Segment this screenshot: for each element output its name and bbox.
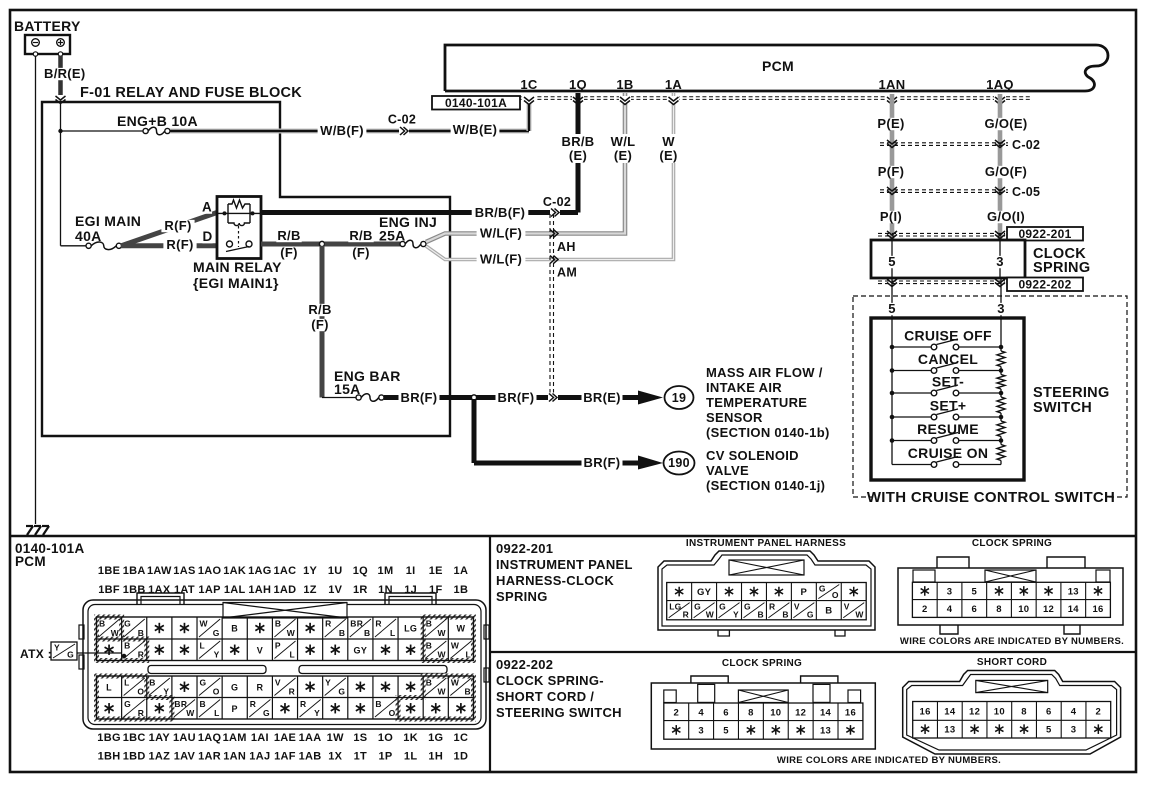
svg-text:8: 8 <box>1021 706 1027 717</box>
svg-text:L: L <box>290 650 296 660</box>
svg-text:0140-101A: 0140-101A <box>445 96 507 110</box>
svg-text:BR: BR <box>350 619 363 629</box>
svg-text:V: V <box>844 602 850 612</box>
svg-text:10: 10 <box>1018 604 1029 615</box>
svg-text:CLOCK SPRING: CLOCK SPRING <box>722 658 802 669</box>
svg-text:B: B <box>426 619 432 629</box>
svg-text:HARNESS-CLOCK: HARNESS-CLOCK <box>496 573 614 588</box>
svg-text:L: L <box>106 682 112 692</box>
svg-text:W: W <box>287 628 296 638</box>
svg-text:R: R <box>289 687 295 697</box>
svg-text:MASS AIR FLOW /: MASS AIR FLOW / <box>706 365 823 380</box>
svg-text:1C: 1C <box>520 77 538 92</box>
svg-text:G: G <box>231 682 238 692</box>
svg-text:O: O <box>137 687 144 697</box>
svg-text:B: B <box>231 624 238 634</box>
svg-text:G: G <box>124 699 131 709</box>
svg-text:W/L: W/L <box>611 134 636 149</box>
svg-text:R: R <box>375 619 381 629</box>
svg-text:1AU: 1AU <box>173 732 196 744</box>
svg-text:WIRE COLORS ARE INDICATED BY N: WIRE COLORS ARE INDICATED BY NUMBERS. <box>777 755 1001 766</box>
svg-text:W: W <box>186 708 195 718</box>
svg-text:B: B <box>124 641 130 651</box>
svg-text:8: 8 <box>996 604 1002 615</box>
svg-text:1I: 1I <box>406 565 416 577</box>
svg-text:10: 10 <box>994 706 1005 717</box>
svg-text:B: B <box>99 619 105 629</box>
svg-text:1X: 1X <box>328 751 342 763</box>
svg-text:1AH: 1AH <box>248 584 271 596</box>
svg-text:1AZ: 1AZ <box>148 751 170 763</box>
svg-text:V: V <box>794 602 800 612</box>
svg-text:R: R <box>138 708 144 718</box>
svg-text:1AN: 1AN <box>223 751 246 763</box>
svg-text:L: L <box>124 678 130 688</box>
svg-text:1AV: 1AV <box>174 751 196 763</box>
svg-text:STEERING: STEERING <box>1033 385 1110 401</box>
svg-text:5: 5 <box>971 586 977 597</box>
svg-text:R: R <box>138 650 144 660</box>
svg-text:G/O(F): G/O(F) <box>985 164 1027 179</box>
svg-text:O: O <box>389 708 396 718</box>
svg-text:R(F): R(F) <box>164 218 191 233</box>
svg-text:1V: 1V <box>328 584 342 596</box>
svg-text:W: W <box>855 609 864 619</box>
svg-text:LG: LG <box>669 602 681 612</box>
svg-text:1B: 1B <box>616 77 633 92</box>
svg-text:C-02: C-02 <box>1012 138 1040 152</box>
svg-text:B: B <box>138 628 144 638</box>
svg-text:5: 5 <box>1046 725 1052 736</box>
svg-text:W/B(E): W/B(E) <box>453 122 497 137</box>
svg-text:2: 2 <box>1096 706 1102 717</box>
svg-text:1AJ: 1AJ <box>249 751 270 763</box>
svg-text:1AE: 1AE <box>274 732 296 744</box>
svg-text:B: B <box>757 609 763 619</box>
svg-text:1AI: 1AI <box>251 732 269 744</box>
svg-text:4: 4 <box>1071 706 1077 717</box>
svg-text:G: G <box>819 584 826 594</box>
svg-text:15A: 15A <box>334 381 361 397</box>
svg-text:5: 5 <box>723 725 729 736</box>
svg-text:(F): (F) <box>352 245 370 260</box>
svg-text:1AO: 1AO <box>198 565 222 577</box>
svg-text:3: 3 <box>996 254 1004 269</box>
svg-text:B: B <box>375 699 381 709</box>
svg-text:R: R <box>250 699 256 709</box>
svg-text:1S: 1S <box>353 732 367 744</box>
svg-text:CLOCK SPRING-: CLOCK SPRING- <box>496 673 604 688</box>
svg-text:W: W <box>706 609 715 619</box>
svg-text:16: 16 <box>845 707 856 718</box>
svg-text:LG: LG <box>404 624 417 634</box>
svg-text:W: W <box>437 687 446 697</box>
svg-text:{EGI MAIN1}: {EGI MAIN1} <box>193 275 279 291</box>
svg-text:1A: 1A <box>665 77 683 92</box>
svg-text:B: B <box>339 628 345 638</box>
svg-text:G: G <box>694 602 701 612</box>
svg-text:(E): (E) <box>569 148 587 163</box>
svg-text:WITH CRUISE CONTROL SWITCH: WITH CRUISE CONTROL SWITCH <box>867 489 1115 506</box>
svg-text:INSTRUMENT PANEL HARNESS: INSTRUMENT PANEL HARNESS <box>686 538 846 549</box>
svg-text:1AQ: 1AQ <box>986 77 1014 92</box>
svg-text:1D: 1D <box>454 751 469 763</box>
svg-text:G/O(E): G/O(E) <box>985 116 1028 131</box>
svg-text:1BH: 1BH <box>98 751 121 763</box>
svg-text:VALVE: VALVE <box>706 463 749 478</box>
svg-text:190: 190 <box>668 456 690 470</box>
svg-text:1A: 1A <box>454 565 469 577</box>
svg-text:L: L <box>214 708 220 718</box>
svg-text:ENG+B 10A: ENG+B 10A <box>117 113 198 129</box>
svg-text:(SECTION 0140-1b): (SECTION 0140-1b) <box>706 425 830 440</box>
svg-text:1G: 1G <box>428 732 443 744</box>
svg-text:AH: AH <box>557 240 576 254</box>
svg-text:1BG: 1BG <box>97 732 121 744</box>
svg-text:L: L <box>390 628 396 638</box>
svg-text:G: G <box>263 708 270 718</box>
svg-text:1BB: 1BB <box>123 584 146 596</box>
svg-text:BR/B(F): BR/B(F) <box>475 205 525 220</box>
svg-text:1AM: 1AM <box>223 732 247 744</box>
svg-text:BR(F): BR(F) <box>584 455 621 470</box>
svg-text:O: O <box>213 687 220 697</box>
svg-text:1Q: 1Q <box>569 77 587 92</box>
svg-text:1AL: 1AL <box>224 584 246 596</box>
svg-text:W: W <box>437 628 446 638</box>
svg-text:W: W <box>451 678 460 688</box>
svg-text:2: 2 <box>673 707 679 718</box>
svg-text:1AY: 1AY <box>149 732 171 744</box>
svg-text:L: L <box>465 650 471 660</box>
svg-text:EGI MAIN: EGI MAIN <box>75 213 141 229</box>
svg-text:1AN: 1AN <box>879 77 906 92</box>
svg-text:16: 16 <box>919 706 930 717</box>
svg-text:G: G <box>338 687 345 697</box>
svg-text:PCM: PCM <box>15 554 46 569</box>
svg-text:P(F): P(F) <box>878 164 904 179</box>
svg-text:CV SOLENOID: CV SOLENOID <box>706 448 799 463</box>
svg-text:B: B <box>782 609 788 619</box>
svg-text:R: R <box>300 699 306 709</box>
svg-text:B: B <box>275 619 281 629</box>
svg-text:SENSOR: SENSOR <box>706 410 763 425</box>
svg-text:SPRING: SPRING <box>1033 260 1090 276</box>
svg-text:W: W <box>451 641 460 651</box>
svg-text:W: W <box>456 624 465 634</box>
svg-text:W/B(F): W/B(F) <box>320 123 364 138</box>
svg-text:W/L(F): W/L(F) <box>480 252 522 267</box>
svg-text:1Y: 1Y <box>303 565 317 577</box>
svg-text:INTAKE AIR: INTAKE AIR <box>706 380 782 395</box>
svg-text:13: 13 <box>1068 586 1079 597</box>
svg-text:STEERING SWITCH: STEERING SWITCH <box>496 705 622 720</box>
svg-text:12: 12 <box>969 706 980 717</box>
svg-text:1R: 1R <box>353 584 368 596</box>
svg-text:13: 13 <box>944 725 955 736</box>
svg-text:1AG: 1AG <box>248 565 272 577</box>
svg-text:BATTERY: BATTERY <box>14 18 81 34</box>
svg-text:1K: 1K <box>403 732 418 744</box>
svg-text:P: P <box>275 641 281 651</box>
svg-text:1J: 1J <box>404 584 417 596</box>
svg-text:B: B <box>464 687 470 697</box>
svg-text:1Z: 1Z <box>303 584 316 596</box>
svg-text:1B: 1B <box>454 584 469 596</box>
svg-text:L: L <box>200 641 206 651</box>
svg-text:BR(F): BR(F) <box>498 390 535 405</box>
svg-text:(F): (F) <box>311 317 329 332</box>
svg-text:G: G <box>213 628 220 638</box>
svg-text:B: B <box>426 641 432 651</box>
svg-text:R: R <box>769 602 775 612</box>
svg-text:R: R <box>683 609 689 619</box>
svg-text:G: G <box>67 650 74 660</box>
svg-text:BR(F): BR(F) <box>401 390 438 405</box>
svg-text:CLOCK SPRING: CLOCK SPRING <box>972 538 1052 549</box>
svg-text:14: 14 <box>820 707 832 718</box>
svg-text:B: B <box>825 606 832 617</box>
svg-text:(F): (F) <box>280 245 298 260</box>
svg-text:SHORT CORD: SHORT CORD <box>977 657 1047 668</box>
svg-text:SPRING: SPRING <box>496 589 548 604</box>
svg-text:4: 4 <box>698 707 704 718</box>
svg-text:0922-201: 0922-201 <box>1018 227 1071 241</box>
svg-text:G: G <box>124 619 131 629</box>
svg-text:1BC: 1BC <box>123 732 146 744</box>
svg-text:1AX: 1AX <box>148 584 171 596</box>
svg-text:5: 5 <box>888 254 896 269</box>
svg-text:R/B: R/B <box>308 302 331 317</box>
svg-text:1AR: 1AR <box>198 751 221 763</box>
svg-text:14: 14 <box>1068 604 1080 615</box>
svg-text:1AK: 1AK <box>223 565 246 577</box>
svg-text:GY: GY <box>697 587 712 598</box>
svg-text:G: G <box>807 609 814 619</box>
svg-text:1H: 1H <box>428 751 443 763</box>
svg-text:R(F): R(F) <box>166 237 193 252</box>
svg-text:R/B: R/B <box>277 228 300 243</box>
svg-text:14: 14 <box>944 706 956 717</box>
svg-text:8: 8 <box>748 707 754 718</box>
svg-text:4: 4 <box>947 604 953 615</box>
svg-text:1BF: 1BF <box>98 584 120 596</box>
svg-text:1AD: 1AD <box>274 584 297 596</box>
svg-text:13: 13 <box>820 725 831 736</box>
svg-text:1AA: 1AA <box>299 732 322 744</box>
svg-text:1AC: 1AC <box>274 565 297 577</box>
svg-text:10: 10 <box>770 707 781 718</box>
svg-text:MAIN RELAY: MAIN RELAY <box>193 259 282 275</box>
svg-text:ATX :: ATX : <box>20 647 52 661</box>
svg-text:1AW: 1AW <box>147 565 172 577</box>
svg-text:B: B <box>200 699 206 709</box>
svg-text:W: W <box>200 619 209 629</box>
svg-text:1P: 1P <box>378 751 392 763</box>
svg-text:3: 3 <box>947 586 953 597</box>
svg-text:6: 6 <box>971 604 977 615</box>
svg-text:1AQ: 1AQ <box>198 732 222 744</box>
svg-text:(SECTION 0140-1j): (SECTION 0140-1j) <box>706 478 825 493</box>
svg-text:G: G <box>719 602 726 612</box>
svg-text:3: 3 <box>997 301 1005 316</box>
svg-text:Y: Y <box>214 650 220 660</box>
svg-text:1AS: 1AS <box>173 565 195 577</box>
svg-text:0922-202: 0922-202 <box>1018 278 1071 292</box>
svg-text:19: 19 <box>672 391 687 405</box>
svg-text:1T: 1T <box>354 751 367 763</box>
svg-text:R: R <box>325 619 331 629</box>
svg-text:5: 5 <box>888 301 896 316</box>
svg-text:GY: GY <box>354 645 368 655</box>
svg-text:1BA: 1BA <box>123 565 146 577</box>
svg-text:Y: Y <box>54 643 60 653</box>
svg-text:C-05: C-05 <box>1012 185 1040 199</box>
svg-text:R/B: R/B <box>349 228 372 243</box>
svg-text:BR(E): BR(E) <box>583 390 621 405</box>
svg-text:Y: Y <box>325 678 331 688</box>
svg-text:V: V <box>275 678 281 688</box>
svg-text:V: V <box>257 645 263 655</box>
svg-text:1O: 1O <box>378 732 393 744</box>
svg-text:1E: 1E <box>429 565 443 577</box>
svg-text:B: B <box>426 678 432 688</box>
svg-text:6: 6 <box>1046 706 1052 717</box>
svg-text:INSTRUMENT PANEL: INSTRUMENT PANEL <box>496 557 633 572</box>
svg-text:TEMPERATURE: TEMPERATURE <box>706 395 807 410</box>
svg-text:16: 16 <box>1092 604 1103 615</box>
svg-text:BR/B: BR/B <box>562 134 595 149</box>
svg-text:Y: Y <box>733 609 739 619</box>
svg-text:AM: AM <box>557 266 577 280</box>
svg-text:P: P <box>801 587 808 598</box>
svg-text:W: W <box>437 650 446 660</box>
svg-text:A: A <box>202 200 212 215</box>
svg-text:1M: 1M <box>378 565 394 577</box>
svg-text:B: B <box>149 678 155 688</box>
svg-text:(E): (E) <box>659 148 677 163</box>
svg-text:R: R <box>256 682 263 692</box>
svg-text:G: G <box>744 602 751 612</box>
svg-text:1L: 1L <box>404 751 417 763</box>
svg-text:0922-202: 0922-202 <box>496 657 553 672</box>
svg-text:0922-201: 0922-201 <box>496 541 553 556</box>
svg-text:2: 2 <box>922 604 928 615</box>
svg-text:1C: 1C <box>454 732 469 744</box>
svg-text:D: D <box>202 229 212 244</box>
svg-text:1AP: 1AP <box>198 584 220 596</box>
svg-text:(E): (E) <box>614 148 632 163</box>
svg-text:12: 12 <box>795 707 806 718</box>
svg-text:P(E): P(E) <box>877 116 904 131</box>
svg-text:G/O(I): G/O(I) <box>987 209 1025 224</box>
svg-text:3: 3 <box>1071 725 1077 736</box>
svg-text:1BD: 1BD <box>123 751 146 763</box>
svg-text:PCM: PCM <box>762 58 794 74</box>
svg-text:O: O <box>832 590 839 600</box>
svg-text:G: G <box>200 678 207 688</box>
svg-text:F-01 RELAY AND FUSE BLOCK: F-01 RELAY AND FUSE BLOCK <box>80 85 302 101</box>
svg-text:SHORT CORD /: SHORT CORD / <box>496 689 594 704</box>
svg-text:3: 3 <box>698 725 704 736</box>
svg-text:WIRE COLORS ARE INDICATED BY N: WIRE COLORS ARE INDICATED BY NUMBERS. <box>900 636 1124 647</box>
svg-text:B: B <box>364 628 370 638</box>
svg-text:1U: 1U <box>328 565 343 577</box>
svg-text:P: P <box>232 704 238 714</box>
svg-text:W: W <box>111 628 120 638</box>
svg-text:P(I): P(I) <box>880 209 902 224</box>
svg-text:B/R(E): B/R(E) <box>44 66 86 81</box>
svg-text:SWITCH: SWITCH <box>1033 400 1092 416</box>
svg-text:C-02: C-02 <box>543 195 571 209</box>
svg-text:W/L(F): W/L(F) <box>480 226 522 241</box>
svg-text:1AF: 1AF <box>274 751 296 763</box>
svg-text:Y: Y <box>314 708 320 718</box>
svg-text:1BE: 1BE <box>98 565 120 577</box>
svg-text:1Q: 1Q <box>353 565 368 577</box>
svg-text:1W: 1W <box>327 732 344 744</box>
svg-text:6: 6 <box>723 707 729 718</box>
svg-text:1AB: 1AB <box>299 751 322 763</box>
svg-text:Y: Y <box>163 687 169 697</box>
svg-text:C-02: C-02 <box>388 113 416 127</box>
svg-text:12: 12 <box>1043 604 1054 615</box>
svg-text:W: W <box>662 134 675 149</box>
